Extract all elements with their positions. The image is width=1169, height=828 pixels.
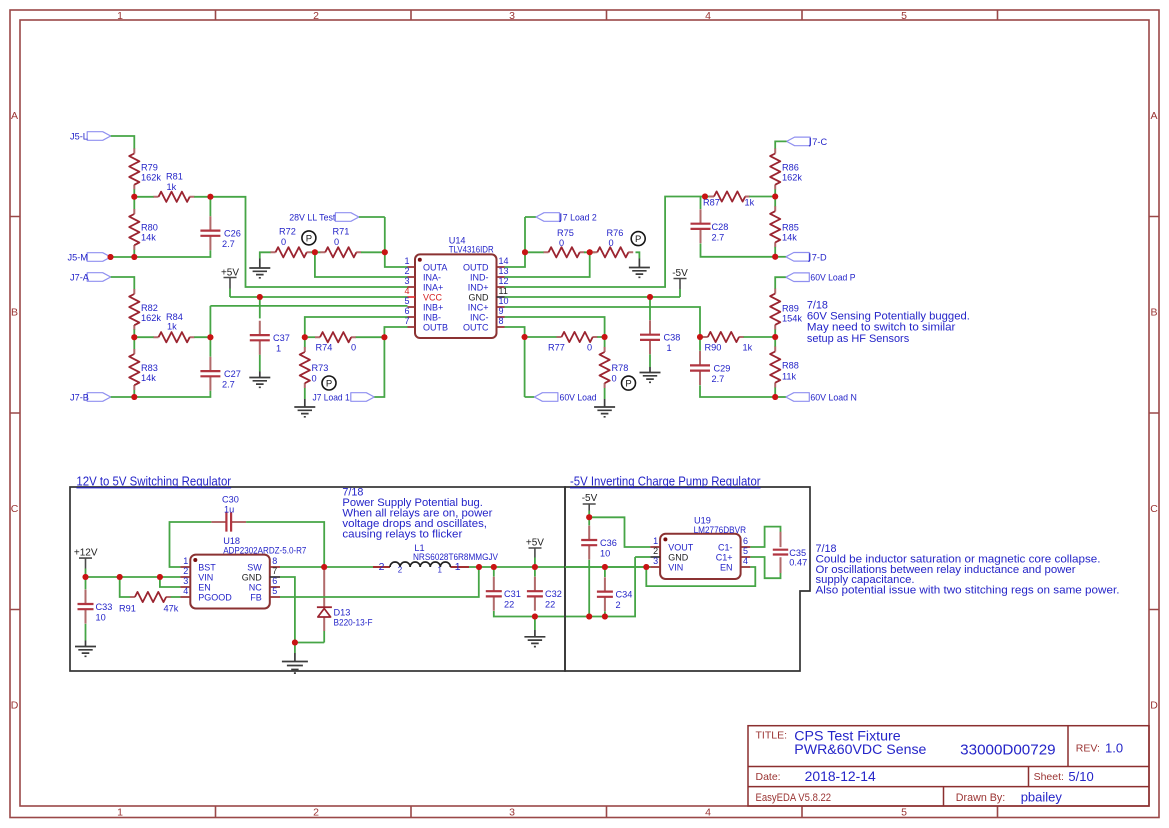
svg-text:R83: R83 — [141, 363, 158, 373]
svg-text:C32: C32 — [545, 589, 562, 599]
junction — [643, 564, 649, 570]
svg-text:2: 2 — [398, 566, 403, 575]
wire — [134, 196, 154, 198]
svg-text:R91: R91 — [119, 604, 136, 614]
capacitor C33 — [78, 577, 113, 624]
svg-text:60V Sensing Potentially bugged: 60V Sensing Potentially bugged. — [807, 311, 970, 323]
wire INB- net — [305, 317, 408, 337]
svg-text:2018-12-14: 2018-12-14 — [805, 769, 877, 784]
power flag +5V — [526, 538, 544, 568]
ground — [594, 388, 615, 417]
wire INC- net — [505, 317, 605, 337]
junction — [381, 334, 387, 340]
power flag +12V — [74, 548, 98, 578]
svg-text:1: 1 — [455, 561, 461, 573]
wire — [700, 385, 775, 397]
wire C1+ net — [750, 557, 780, 578]
U14 pin numbers right — [499, 256, 509, 326]
wire GND net — [505, 296, 681, 298]
svg-text:SW: SW — [247, 563, 262, 573]
svg-text:162k: 162k — [782, 173, 802, 183]
port J7-C — [775, 137, 827, 149]
wire GND U18 — [280, 577, 324, 643]
probe P — [302, 231, 316, 245]
capacitor C36 — [581, 517, 617, 559]
svg-text:1: 1 — [117, 10, 123, 22]
svg-text:0: 0 — [612, 374, 617, 384]
svg-text:C29: C29 — [714, 364, 731, 374]
svg-text:INB-: INB- — [423, 313, 441, 323]
svg-text:C35: C35 — [789, 548, 806, 558]
port 60V Load P — [775, 273, 855, 289]
junction node X2 — [131, 334, 137, 340]
svg-text:6: 6 — [404, 306, 409, 316]
svg-text:1: 1 — [653, 536, 658, 546]
svg-text:14k: 14k — [141, 373, 156, 383]
resistor R88 — [770, 347, 799, 388]
svg-text:REV:: REV: — [1076, 743, 1100, 755]
wire — [194, 197, 407, 287]
svg-text:2: 2 — [653, 546, 658, 556]
port J7-D — [775, 252, 827, 262]
U18 left pin stubs — [180, 567, 190, 597]
ground — [249, 259, 270, 278]
svg-text:+5V: +5V — [526, 538, 544, 549]
junction dots overlay — [83, 194, 779, 646]
svg-text:A: A — [11, 110, 18, 122]
wire — [134, 336, 154, 338]
svg-text:22: 22 — [504, 600, 514, 610]
svg-text:LM2776DBVR: LM2776DBVR — [694, 525, 747, 535]
wire — [120, 577, 134, 597]
junction — [83, 574, 89, 580]
svg-text:Drawn By:: Drawn By: — [956, 792, 1006, 804]
resistor R87 — [703, 191, 755, 207]
wire VCC net — [230, 296, 408, 298]
svg-text:C26: C26 — [224, 229, 241, 239]
svg-text:7/18: 7/18 — [807, 299, 828, 311]
svg-text:OUTA: OUTA — [423, 263, 447, 273]
svg-text:3: 3 — [509, 10, 515, 22]
svg-text:PGOOD: PGOOD — [198, 593, 232, 603]
svg-text:B220-13-F: B220-13-F — [334, 617, 373, 627]
svg-text:1k: 1k — [745, 198, 755, 208]
wire — [305, 336, 316, 338]
svg-text:3: 3 — [509, 807, 515, 819]
svg-text:GND: GND — [242, 573, 263, 583]
svg-text:5: 5 — [901, 10, 907, 22]
svg-text:0: 0 — [609, 238, 614, 248]
svg-text:C31: C31 — [504, 589, 521, 599]
capacitor C34 — [597, 567, 632, 611]
wire IND+ net — [505, 197, 706, 288]
wire FB net — [280, 567, 479, 597]
wire VIN rail — [86, 576, 181, 578]
wire +5V rail — [469, 566, 650, 568]
svg-text:1k: 1k — [167, 182, 177, 192]
svg-text:154k: 154k — [782, 314, 802, 324]
svg-text:7 Load 2: 7 Load 2 — [563, 213, 597, 223]
wire — [209, 197, 211, 217]
wire EN tie — [646, 567, 755, 586]
svg-text:5: 5 — [743, 546, 748, 556]
svg-text:R75: R75 — [557, 228, 574, 238]
wire GND U19 — [635, 556, 650, 558]
wire — [361, 217, 408, 267]
svg-text:4: 4 — [743, 556, 748, 566]
U14 pin names left — [423, 263, 448, 333]
svg-text:EasyEDA V5.8.22: EasyEDA V5.8.22 — [756, 792, 832, 804]
U14 pin names right — [463, 263, 489, 333]
resistor R90 — [703, 332, 753, 353]
resistor R78 — [600, 337, 629, 388]
resistor R77 — [548, 332, 598, 353]
wire — [111, 391, 211, 397]
svg-text:14k: 14k — [141, 233, 156, 243]
U19 right pin stubs — [741, 547, 751, 567]
svg-text:0: 0 — [559, 238, 564, 248]
svg-text:C28: C28 — [712, 222, 729, 232]
junction — [772, 254, 778, 260]
capacitor C32 — [527, 567, 562, 611]
capacitor C35 — [773, 532, 807, 573]
junction — [476, 564, 482, 570]
wire — [774, 247, 776, 257]
port J7-B — [70, 393, 111, 403]
capacitor C29 — [690, 337, 730, 385]
svg-text:2: 2 — [313, 807, 319, 819]
svg-text:4: 4 — [183, 586, 188, 596]
junction node Y1 — [207, 194, 213, 200]
svg-text:8: 8 — [499, 316, 504, 326]
U14 right pin stubs — [497, 267, 505, 327]
svg-text:OUTB: OUTB — [423, 323, 448, 333]
svg-text:5: 5 — [404, 296, 409, 306]
svg-text:1: 1 — [404, 256, 409, 266]
svg-text:C34: C34 — [616, 590, 633, 600]
svg-text:May need to switch to similar: May need to switch to similar — [807, 322, 956, 334]
junction — [647, 294, 653, 300]
ground — [282, 643, 308, 674]
junction — [302, 334, 308, 340]
resistor R91 — [119, 592, 179, 614]
svg-text:C: C — [11, 503, 19, 515]
junction — [522, 334, 528, 340]
svg-text:7-C: 7-C — [812, 137, 827, 147]
note 60V sensing — [807, 299, 970, 345]
junction — [117, 574, 123, 580]
svg-text:1k: 1k — [743, 343, 753, 353]
svg-text:R82: R82 — [141, 303, 158, 313]
svg-text:TLV4316IDR: TLV4316IDR — [449, 245, 494, 255]
svg-text:3: 3 — [653, 556, 658, 566]
wire — [636, 252, 640, 258]
svg-text:pbailey: pbailey — [1021, 789, 1063, 804]
svg-text:B: B — [1150, 307, 1157, 319]
svg-text:10: 10 — [96, 613, 106, 623]
junction — [602, 614, 608, 620]
svg-text:2: 2 — [313, 10, 319, 22]
U18 pin 7 stub GND — [270, 576, 280, 578]
junction — [131, 254, 137, 260]
ground — [294, 388, 315, 417]
svg-text:1: 1 — [276, 344, 281, 354]
U19 left pin stubs — [650, 547, 660, 567]
capacitor C26 — [200, 216, 240, 250]
svg-text:VIN: VIN — [668, 563, 683, 573]
svg-text:-5V Inverting Charge Pump Regu: -5V Inverting Charge Pump Regulator — [570, 475, 761, 489]
wire — [525, 336, 557, 338]
svg-text:TITLE:: TITLE: — [756, 730, 788, 742]
wire — [356, 327, 408, 337]
svg-text:Sheet:: Sheet: — [1034, 771, 1064, 783]
wire — [194, 306, 407, 357]
wire ground rail — [494, 557, 635, 617]
svg-text:R88: R88 — [782, 361, 799, 371]
svg-text:9: 9 — [499, 306, 504, 316]
wire — [133, 189, 135, 209]
wire IND- net — [505, 252, 596, 277]
box 12V to 5V Switching Regulator — [70, 475, 565, 672]
wire — [111, 277, 135, 289]
probe P — [622, 376, 636, 390]
svg-text:Also potential issue with two: Also potential issue with two stitching … — [816, 585, 1120, 597]
svg-text:FB: FB — [250, 593, 262, 603]
svg-text:OUTC: OUTC — [463, 323, 489, 333]
svg-text:C27: C27 — [224, 369, 241, 379]
svg-text:R76: R76 — [607, 228, 624, 238]
svg-text:R90: R90 — [705, 343, 722, 353]
svg-text:ADP2302ARDZ-5.0-R7: ADP2302ARDZ-5.0-R7 — [223, 545, 306, 555]
power flag -5V — [672, 268, 688, 297]
junction — [312, 249, 318, 255]
wire OUTD net — [505, 217, 537, 267]
svg-text:1u: 1u — [224, 504, 234, 514]
resistor R84 — [154, 312, 195, 342]
svg-text:60V Load N: 60V Load N — [810, 393, 857, 403]
U19 pin names — [668, 543, 732, 573]
svg-text:-5V: -5V — [582, 493, 598, 504]
wire — [260, 252, 271, 258]
op-amp U14 — [415, 236, 497, 338]
svg-text:VCC: VCC — [423, 293, 443, 303]
svg-text:162k: 162k — [141, 173, 161, 183]
port J5-M — [68, 253, 111, 263]
svg-text:+12V: +12V — [74, 548, 98, 559]
wire — [525, 251, 544, 253]
svg-text:R71: R71 — [333, 227, 350, 237]
svg-text:R86: R86 — [782, 163, 799, 173]
svg-text:5: 5 — [272, 586, 277, 596]
svg-text:R78: R78 — [612, 363, 629, 373]
svg-text:0: 0 — [312, 374, 317, 384]
capacitor C27 — [200, 357, 240, 391]
resistor R79 — [129, 149, 161, 190]
U14 left pin stubs — [408, 267, 416, 327]
svg-text:J7-B: J7-B — [70, 393, 89, 403]
svg-text:R73: R73 — [312, 363, 329, 373]
capacitor C31 — [486, 567, 521, 611]
svg-text:5/10: 5/10 — [1068, 769, 1093, 784]
wire — [744, 336, 776, 338]
svg-text:C38: C38 — [664, 333, 681, 343]
diode D13 — [317, 567, 373, 643]
svg-text:0: 0 — [587, 343, 592, 353]
svg-text:7: 7 — [272, 566, 277, 576]
ground — [75, 624, 96, 657]
svg-text:4: 4 — [705, 10, 711, 22]
svg-text:BST: BST — [198, 563, 216, 573]
junction — [522, 249, 528, 255]
svg-text:C37: C37 — [273, 333, 290, 343]
svg-text:1: 1 — [117, 807, 123, 819]
wire — [604, 611, 606, 616]
svg-text:2: 2 — [379, 561, 385, 573]
resistor R86 — [770, 149, 802, 190]
note charge pump — [816, 543, 1120, 596]
resistor R71 — [320, 227, 361, 258]
junction — [108, 254, 114, 260]
junction — [702, 194, 708, 200]
wire OUTC net — [505, 327, 535, 397]
svg-text:D: D — [11, 700, 19, 712]
TITLE BLOCK — [748, 726, 1149, 806]
svg-text:Date:: Date: — [756, 771, 781, 783]
note power supply bug — [342, 487, 492, 541]
resistor R80 — [129, 209, 158, 250]
svg-text:NC: NC — [249, 583, 262, 593]
svg-text:162k: 162k — [141, 313, 161, 323]
svg-text:3: 3 — [404, 276, 409, 286]
port J5-L — [70, 132, 111, 142]
capacitor C30 — [211, 495, 246, 532]
svg-text:INC-: INC- — [470, 313, 489, 323]
wire — [133, 329, 135, 397]
svg-text:2: 2 — [616, 600, 621, 610]
wire — [774, 189, 776, 206]
svg-text:D: D — [1150, 700, 1158, 712]
svg-text:22: 22 — [545, 600, 555, 610]
svg-text:C: C — [1150, 503, 1158, 515]
svg-text:0.47: 0.47 — [789, 558, 807, 568]
junction — [772, 334, 778, 340]
svg-text:28V LL Test: 28V LL Test — [289, 213, 336, 223]
ground — [629, 259, 650, 278]
svg-text:GND: GND — [469, 293, 490, 303]
svg-text:J5-L: J5-L — [70, 132, 88, 142]
svg-text:1.0: 1.0 — [1105, 740, 1123, 755]
U14 pin 11 stub GND — [497, 296, 505, 298]
svg-text:8: 8 — [272, 556, 277, 566]
wire VOUT net — [589, 517, 650, 547]
wire — [749, 196, 775, 198]
wire — [111, 250, 211, 257]
svg-text:J5-M: J5-M — [68, 253, 88, 263]
capacitor C37 — [250, 297, 290, 355]
svg-text:OUTD: OUTD — [463, 263, 489, 273]
svg-text:INC+: INC+ — [468, 303, 489, 313]
svg-text:D13: D13 — [334, 607, 351, 617]
junction — [697, 334, 703, 340]
svg-text:2: 2 — [183, 566, 188, 576]
junction — [532, 564, 538, 570]
wire INC+ net — [505, 307, 701, 337]
port J7 Load 2 — [536, 213, 597, 223]
junction — [532, 614, 538, 620]
svg-text:-5V: -5V — [672, 268, 688, 279]
wire INA- net — [311, 252, 408, 277]
power flag -5V — [582, 493, 598, 517]
svg-text:EN: EN — [720, 563, 733, 573]
svg-text:33000D00729: 33000D00729 — [960, 742, 1055, 759]
wire — [171, 596, 181, 598]
svg-text:5: 5 — [901, 807, 907, 819]
svg-text:EN: EN — [198, 583, 211, 593]
capacitor C28 — [691, 197, 729, 244]
svg-text:B: B — [11, 307, 18, 319]
svg-text:R85: R85 — [782, 223, 799, 233]
svg-text:C30: C30 — [222, 495, 239, 505]
svg-text:IND+: IND+ — [468, 283, 489, 293]
junction — [292, 640, 298, 646]
junction — [491, 564, 497, 570]
wire — [700, 336, 703, 338]
junction — [602, 564, 608, 570]
svg-text:0: 0 — [351, 343, 356, 353]
capacitor C38 — [640, 297, 680, 354]
svg-text:11k: 11k — [782, 372, 797, 382]
svg-text:6: 6 — [743, 536, 748, 546]
svg-text:J7 Load 1: J7 Load 1 — [313, 393, 350, 403]
wire C1- net — [750, 527, 780, 547]
svg-text:2: 2 — [404, 266, 409, 276]
svg-text:R77: R77 — [548, 343, 565, 353]
svg-text:GND: GND — [668, 553, 689, 563]
resistor R89 — [770, 289, 802, 330]
svg-text:PWR&60VDC Sense: PWR&60VDC Sense — [794, 742, 926, 757]
junction — [131, 394, 137, 400]
probe P — [631, 232, 645, 246]
svg-text:R74: R74 — [316, 343, 333, 353]
wire — [774, 329, 776, 397]
resistor R74 — [315, 332, 356, 352]
resistor R73 — [300, 337, 329, 388]
svg-text:C1-: C1- — [718, 543, 733, 553]
U19 pin numbers — [653, 536, 748, 566]
junction — [382, 249, 388, 255]
junction — [257, 294, 263, 300]
svg-text:C33: C33 — [96, 602, 113, 612]
svg-text:14k: 14k — [782, 233, 797, 243]
U18 pin numbers — [183, 556, 277, 596]
svg-text:INB+: INB+ — [423, 303, 443, 313]
wire — [701, 244, 776, 257]
power flag +5V — [221, 268, 239, 298]
svg-text:6: 6 — [272, 576, 277, 586]
svg-text:R89: R89 — [782, 304, 799, 314]
svg-text:14: 14 — [499, 256, 509, 266]
junction — [586, 514, 592, 520]
resistor R75 — [544, 228, 585, 257]
svg-text:setup as HF Sensors: setup as HF Sensors — [807, 333, 910, 345]
U18 pin names — [198, 563, 262, 603]
inductor L1 — [373, 543, 499, 575]
svg-text:2.7: 2.7 — [222, 239, 235, 249]
svg-text:VOUT: VOUT — [668, 543, 694, 553]
svg-text:2.7: 2.7 — [222, 380, 235, 390]
box -5V Inverting Charge Pump Regulator — [565, 475, 810, 672]
junction node X1 — [131, 194, 137, 200]
